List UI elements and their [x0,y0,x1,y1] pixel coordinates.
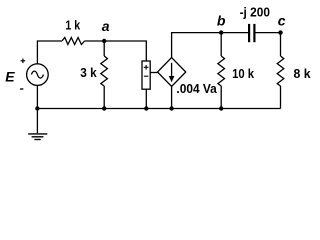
node dot diamond bottom [169,106,173,110]
svg-text:c: c [278,13,286,29]
svg-text:-j 200: -j 200 [240,5,270,20]
node dot 10k bottom [219,106,223,110]
wire node c down to 8k [280,33,282,56]
resistor 10k zigzag [218,56,225,86]
wire source bottom to bus [36,85,38,108]
node b dot [219,30,223,34]
resistor 8k zigzag [277,56,284,86]
AC source E circle [27,64,49,86]
svg-text:10 k: 10 k [232,66,255,81]
svg-text:1 k: 1 k [65,18,80,33]
wire capacitor to node c [256,32,281,34]
bottom bus wire [37,108,280,110]
capacitor -j200 plates [248,24,250,42]
ground symbol [28,133,47,135]
wire box bottom to bus [145,89,147,108]
wire 3k to bottom bus [103,86,105,109]
wire box to diamond [150,72,157,74]
arrow shaft in diamond [171,63,173,77]
wire node b down to 10k [220,33,222,56]
svg-text:E: E [5,69,15,85]
dependent current source diamond [158,58,186,87]
resistor R 1k zigzag [62,38,85,45]
wire node b to capacitor [221,32,248,34]
minus sign in box [144,75,148,77]
svg-text:.004 Va: .004 Va [176,81,217,96]
node dot box bottom [144,106,148,110]
arrowhead of dependent source [169,76,175,82]
wire 1k to node a to box drop [85,41,147,61]
node dot 3k bottom [102,106,106,110]
wire 10k to bus [220,86,222,109]
svg-text:8 k: 8 k [294,66,312,81]
node a dot [102,39,106,43]
node dot bus-left [35,106,39,110]
minus sign of source E [20,88,23,90]
wire node a down to 3k [103,41,105,56]
plus sign in box [144,66,149,68]
wire top-left rail from source to 1k [37,41,62,64]
node c dot [278,30,282,34]
wire diamond top to node b [172,33,222,58]
plus sign of source E [21,60,26,62]
wire 8k to bus corner [280,86,282,109]
box element with polarity Va [142,61,150,89]
svg-text:a: a [102,18,110,34]
wire diamond bottom to bus [171,86,173,108]
sine wave in source [31,71,43,78]
svg-text:b: b [217,13,226,29]
svg-text:3 k: 3 k [80,65,97,80]
resistor 3k zigzag [101,56,108,86]
ground stub [36,109,38,134]
